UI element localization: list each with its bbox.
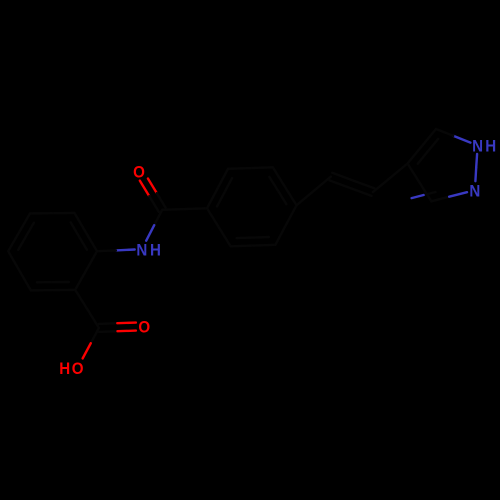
pyrazole bond N2-N1 <box>475 154 477 181</box>
acid C-OH bond (C8-O3) <box>83 328 99 359</box>
central ring bond B5-B6 <box>228 167 273 169</box>
atom label NH (amide nitrogen N1) <box>136 241 161 260</box>
atom label O (acid carbonyl oxygen O2) <box>138 318 150 337</box>
acid C=O double bond (C8=O2) <box>99 323 136 332</box>
atom label O (amide oxygen O1) <box>133 163 145 182</box>
left ring bond A1-A2 <box>75 251 97 290</box>
central ring double bond B2=B3 <box>231 237 276 246</box>
svg-text:H: H <box>485 137 496 156</box>
central ring double bond B4=B5 <box>269 167 296 205</box>
left ring bond A3-A4 <box>30 212 74 215</box>
svg-text:H: H <box>150 241 161 260</box>
central ring bond B3-B4 <box>275 205 296 245</box>
svg-text:O: O <box>133 163 145 182</box>
pyrazole double bond C3=N2 <box>412 192 467 201</box>
svg-text:O: O <box>138 318 150 337</box>
vinyl C=C double bond (Ca=Cb) <box>330 173 375 196</box>
bond B4-Ca (ring to vinyl) <box>297 177 331 206</box>
svg-text:N: N <box>136 241 147 260</box>
svg-text:N: N <box>472 137 483 156</box>
pyrazole bond N1-C5 <box>436 129 470 143</box>
pyrazole bond C4-C3 <box>408 164 432 202</box>
atom label N (pyrazole N2) <box>469 182 480 201</box>
amide C-N bond (C7-N1) <box>146 210 162 241</box>
central ring bond B1-B2 <box>207 208 231 246</box>
atom label HO (acid hydroxyl O3) <box>59 359 83 378</box>
svg-text:H: H <box>59 359 70 378</box>
svg-text:N: N <box>469 182 480 201</box>
bond C7-B1 (carbonyl to central ring) <box>162 208 207 210</box>
left ring bond A5-A6 <box>8 251 31 290</box>
bond A1-C8 (ring to acid carbon) <box>75 290 99 328</box>
left ring double bond A6=A1 <box>31 282 75 290</box>
pyrazole double bond C5=C4 <box>408 129 439 164</box>
left ring double bond A2=A3 <box>71 213 97 251</box>
atom label NH (pyrazole N1) <box>472 137 496 156</box>
bond N1-A2 (amide N to left ring) <box>97 250 135 252</box>
amide C=O double bond (C7=O1) <box>140 179 166 212</box>
svg-text:O: O <box>72 359 84 378</box>
central ring double bond B6=B1 <box>207 169 232 209</box>
left ring double bond A4=A5 <box>8 213 34 251</box>
bond Cb-P4 (vinyl to pyrazole C4) <box>373 164 408 193</box>
